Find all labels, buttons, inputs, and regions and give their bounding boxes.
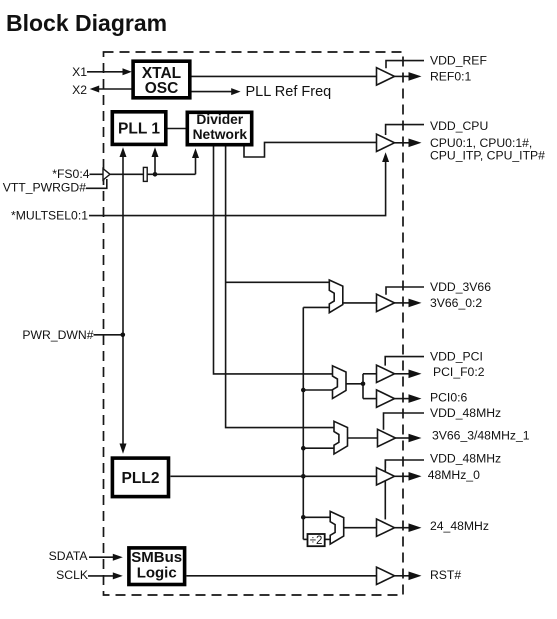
SMBus Logic box (129, 548, 185, 585)
svg-text:Block Diagram: Block Diagram (6, 10, 167, 36)
wire PWR_DWN# input (94, 334, 123, 336)
buffer U-48B (377, 468, 395, 485)
svg-text:VDD_REF: VDD_REF (430, 54, 487, 68)
wire trunk to 24_48 mux (303, 516, 330, 518)
wire VDD_CPU stub (386, 125, 424, 135)
svg-text:VDD_3V66: VDD_3V66 (430, 280, 491, 294)
wire divider branch to 3V66 mux (226, 281, 330, 283)
buffer U-REF (377, 68, 395, 85)
node trunk PLL2 junction (301, 474, 306, 479)
svg-text:*MULTSEL0:1: *MULTSEL0:1 (11, 209, 88, 223)
node PWR_DWN junction (121, 333, 126, 338)
svg-text:3V66_0:2: 3V66_0:2 (430, 296, 482, 310)
bus marker on FS net (143, 167, 147, 181)
svg-text:SMBus: SMBus (131, 549, 182, 566)
mux M-2448 (330, 511, 344, 544)
svg-text:Network: Network (193, 127, 248, 142)
svg-text:SDATA: SDATA (49, 549, 89, 563)
wire trunk to 48MHz mux (303, 447, 334, 449)
svg-text:48MHz_0: 48MHz_0 (428, 468, 480, 482)
buffer U-CPU (377, 134, 395, 151)
wire divider output 2 to 48MHz mux (226, 146, 334, 428)
PLL1 box (112, 112, 166, 145)
wire PLL Ref Freq branch (192, 91, 233, 93)
svg-text:Logic: Logic (137, 565, 177, 582)
wire VDD_PCI stub (385, 357, 424, 366)
svg-text:Divider: Divider (196, 112, 243, 127)
svg-text:X2: X2 (72, 83, 87, 97)
mux M-3V66 (329, 280, 343, 313)
wire SCLK input (88, 575, 114, 577)
svg-text:CPU_ITP, CPU_ITP#: CPU_ITP, CPU_ITP# (430, 149, 545, 163)
buffer U-PCIF (377, 365, 395, 382)
buffer U-48A (378, 429, 396, 446)
svg-text:VTT_PWRGD#: VTT_PWRGD# (3, 180, 87, 194)
svg-text:24_48MHz: 24_48MHz (430, 519, 489, 533)
wire VDD_REF stub (386, 61, 424, 69)
wire VDD_3V66 stub (386, 287, 424, 295)
wire trunk to divide-by-2 (303, 538, 307, 540)
wire SMBus output to RST buffer (187, 575, 377, 577)
svg-text:PWR_DWN#: PWR_DWN# (22, 328, 93, 342)
svg-text:RST#: RST# (430, 568, 461, 582)
wire PCI split vertical (362, 374, 364, 399)
wire XTAL OSC to REF buffer (192, 75, 377, 77)
svg-text:PLL 1: PLL 1 (118, 120, 160, 137)
svg-text:VDD_CPU: VDD_CPU (430, 119, 488, 133)
wire X1 input (87, 71, 124, 73)
PLL2 box (112, 458, 168, 497)
wire trunk to 3V66 mux (303, 306, 329, 308)
wire PLL2 output (171, 475, 377, 477)
svg-text:X1: X1 (72, 65, 87, 79)
wire to PCI0:6 buffer (363, 398, 377, 400)
svg-text:PLL Ref Freq: PLL Ref Freq (246, 84, 332, 100)
buffer U-2448 (377, 519, 395, 536)
mux M-PCI (333, 366, 347, 399)
wire VDD feed to 24_48 buffer (384, 460, 386, 519)
node FS junction (153, 172, 158, 177)
svg-text:OSC: OSC (145, 80, 179, 97)
wire PWR_DWN vertical to PLL1 and PLL2 (122, 156, 124, 445)
wire Divider Network step to CPU buffer (244, 142, 377, 157)
wire PCI mux output (346, 383, 363, 385)
wire 48MHz mux output (348, 437, 378, 439)
wire trunk to PCI mux (303, 389, 332, 391)
buffer U-PCI06 (377, 390, 395, 407)
wire 24_48 mux output (344, 527, 377, 529)
wire 3V66 mux output (343, 302, 377, 304)
wire PLL2 48MHz vertical trunk (302, 307, 304, 539)
wire FS net (110, 173, 196, 175)
wire VDD_48MHz stub B (385, 460, 424, 468)
wire X2 output (99, 88, 132, 90)
svg-text:÷2: ÷2 (310, 535, 323, 547)
svg-text:PLL2: PLL2 (122, 470, 160, 487)
mux M-48 (334, 421, 348, 454)
node PCI split (361, 382, 366, 387)
buffer U-RST (377, 567, 395, 584)
svg-text:VDD_PCI: VDD_PCI (430, 349, 483, 363)
buffer U-3V66 (377, 294, 395, 311)
svg-text:*FS0:4: *FS0:4 (52, 167, 89, 181)
wire FS to Divider arrow (195, 157, 197, 174)
wire divider output 1 to PCI mux (214, 146, 333, 374)
wire to PCI_F buffer (363, 373, 377, 375)
wire PLL1 to Divider Network (168, 128, 186, 130)
wire VDD_48MHz stub A (384, 413, 425, 430)
XTAL OSC box (133, 61, 190, 98)
node trunk 48MHz junction (301, 446, 306, 451)
svg-text:SCLK: SCLK (56, 568, 88, 582)
divide-by-2 block (308, 534, 325, 546)
svg-text:VDD_48MHz: VDD_48MHz (430, 406, 501, 420)
svg-text:3V66_3/48MHz_1: 3V66_3/48MHz_1 (432, 429, 530, 443)
svg-text:PCI0:6: PCI0:6 (430, 390, 467, 404)
wire FS to PLL1 arrow (154, 156, 156, 174)
svg-text:REF0:1: REF0:1 (430, 70, 472, 84)
wire FS0:4 input (90, 173, 104, 175)
input buffer FS0:4 (103, 169, 110, 180)
node trunk div2 junction (301, 515, 306, 520)
svg-text:VDD_48MHz: VDD_48MHz (430, 452, 501, 466)
wire MULTSEL0:1 to CPU buffer (89, 161, 386, 216)
Divider Network box (187, 112, 251, 144)
node trunk PCI junction (301, 388, 306, 393)
wire VTT_PWRGD# (86, 179, 107, 188)
svg-text:PCI_F0:2: PCI_F0:2 (433, 365, 485, 379)
wire divide-by-2 output (325, 538, 330, 540)
chip boundary dashed border (104, 52, 404, 595)
wire SDATA input (89, 556, 114, 558)
